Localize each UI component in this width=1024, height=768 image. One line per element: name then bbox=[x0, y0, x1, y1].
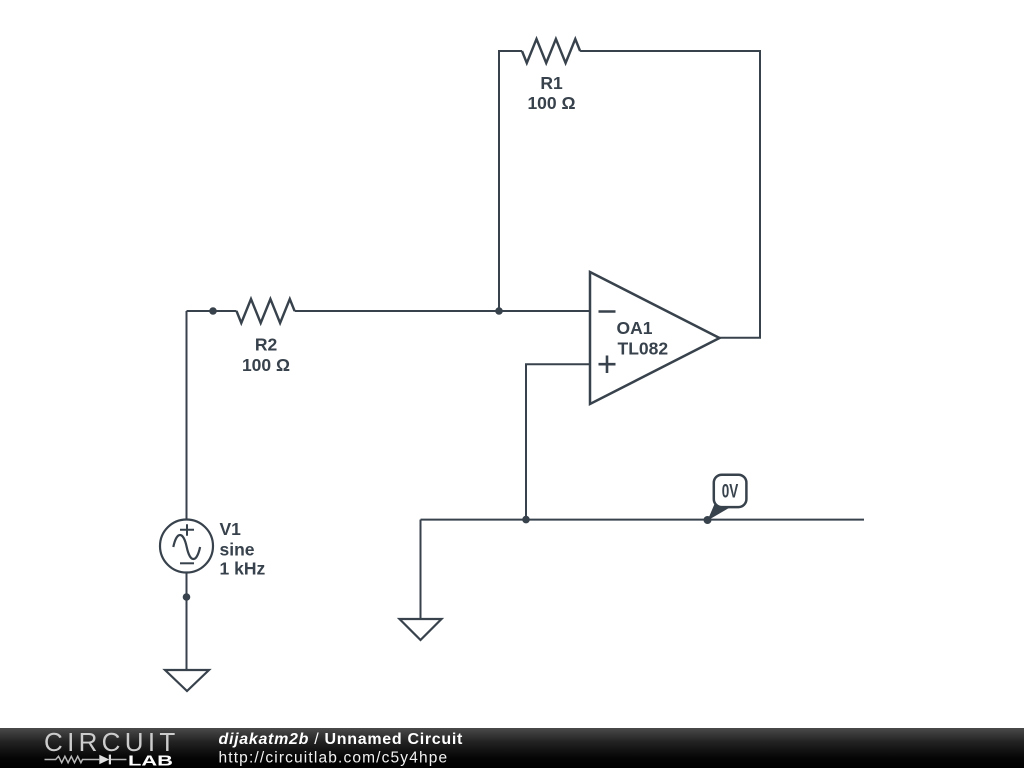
svg-text:V1: V1 bbox=[220, 519, 242, 539]
node 0V flag bbox=[704, 475, 747, 524]
wire: R2 to inverting input bbox=[295, 310, 590, 312]
label V1 value bbox=[220, 519, 266, 579]
op-amp OA1 bbox=[590, 272, 720, 404]
wire: non-inverting input down to ground bus bbox=[526, 364, 590, 519]
svg-text:LAB: LAB bbox=[128, 754, 173, 768]
wire: V1 top column bbox=[186, 311, 188, 520]
svg-text:R1: R1 bbox=[540, 73, 563, 93]
svg-text:100 Ω: 100 Ω bbox=[527, 93, 575, 113]
svg-text:100 Ω: 100 Ω bbox=[242, 355, 290, 375]
svg-text:http://circuitlab.com/c5y4hpe: http://circuitlab.com/c5y4hpe bbox=[219, 749, 449, 766]
svg-text:dijakatm2b / Unnamed Circuit: dijakatm2b / Unnamed Circuit bbox=[219, 731, 464, 748]
svg-text:TL082: TL082 bbox=[618, 339, 669, 359]
svg-text:0V: 0V bbox=[722, 482, 739, 503]
svg-text:1 kHz: 1 kHz bbox=[220, 559, 266, 579]
svg-text:OA1: OA1 bbox=[617, 318, 653, 338]
svg-text:R2: R2 bbox=[255, 335, 278, 355]
wire: input left segment bbox=[187, 310, 237, 312]
wire: ground bus horizontal bbox=[421, 519, 865, 521]
wire: R1 right lead + feedback right vertical + op-amp output bbox=[580, 51, 760, 338]
label R2 value bbox=[242, 335, 290, 376]
wire: feedback left vertical + R1 left lead bbox=[499, 51, 522, 311]
node: feedback/input junction bbox=[495, 307, 503, 315]
node: ground bus junction bbox=[522, 516, 530, 524]
wire: V1 bottom to ground bbox=[186, 573, 188, 671]
resistor R1 bbox=[522, 39, 580, 63]
ground (below V1) bbox=[165, 670, 209, 691]
ground (bus) bbox=[400, 619, 442, 640]
label OA1 value bbox=[617, 318, 669, 359]
node: R2 left terminal bbox=[209, 307, 217, 315]
label R1 value bbox=[527, 73, 575, 113]
pin + (non-inverting input) bbox=[599, 356, 616, 374]
voltage source V1 bbox=[160, 520, 213, 573]
wire: ground bus down to ground symbol bbox=[420, 520, 422, 619]
CircuitLab logo bbox=[44, 727, 180, 768]
node: V1 bottom wire bbox=[183, 593, 191, 601]
pin - (inverting input) bbox=[599, 310, 616, 313]
resistor R2 bbox=[237, 299, 295, 323]
svg-text:sine: sine bbox=[220, 540, 255, 560]
